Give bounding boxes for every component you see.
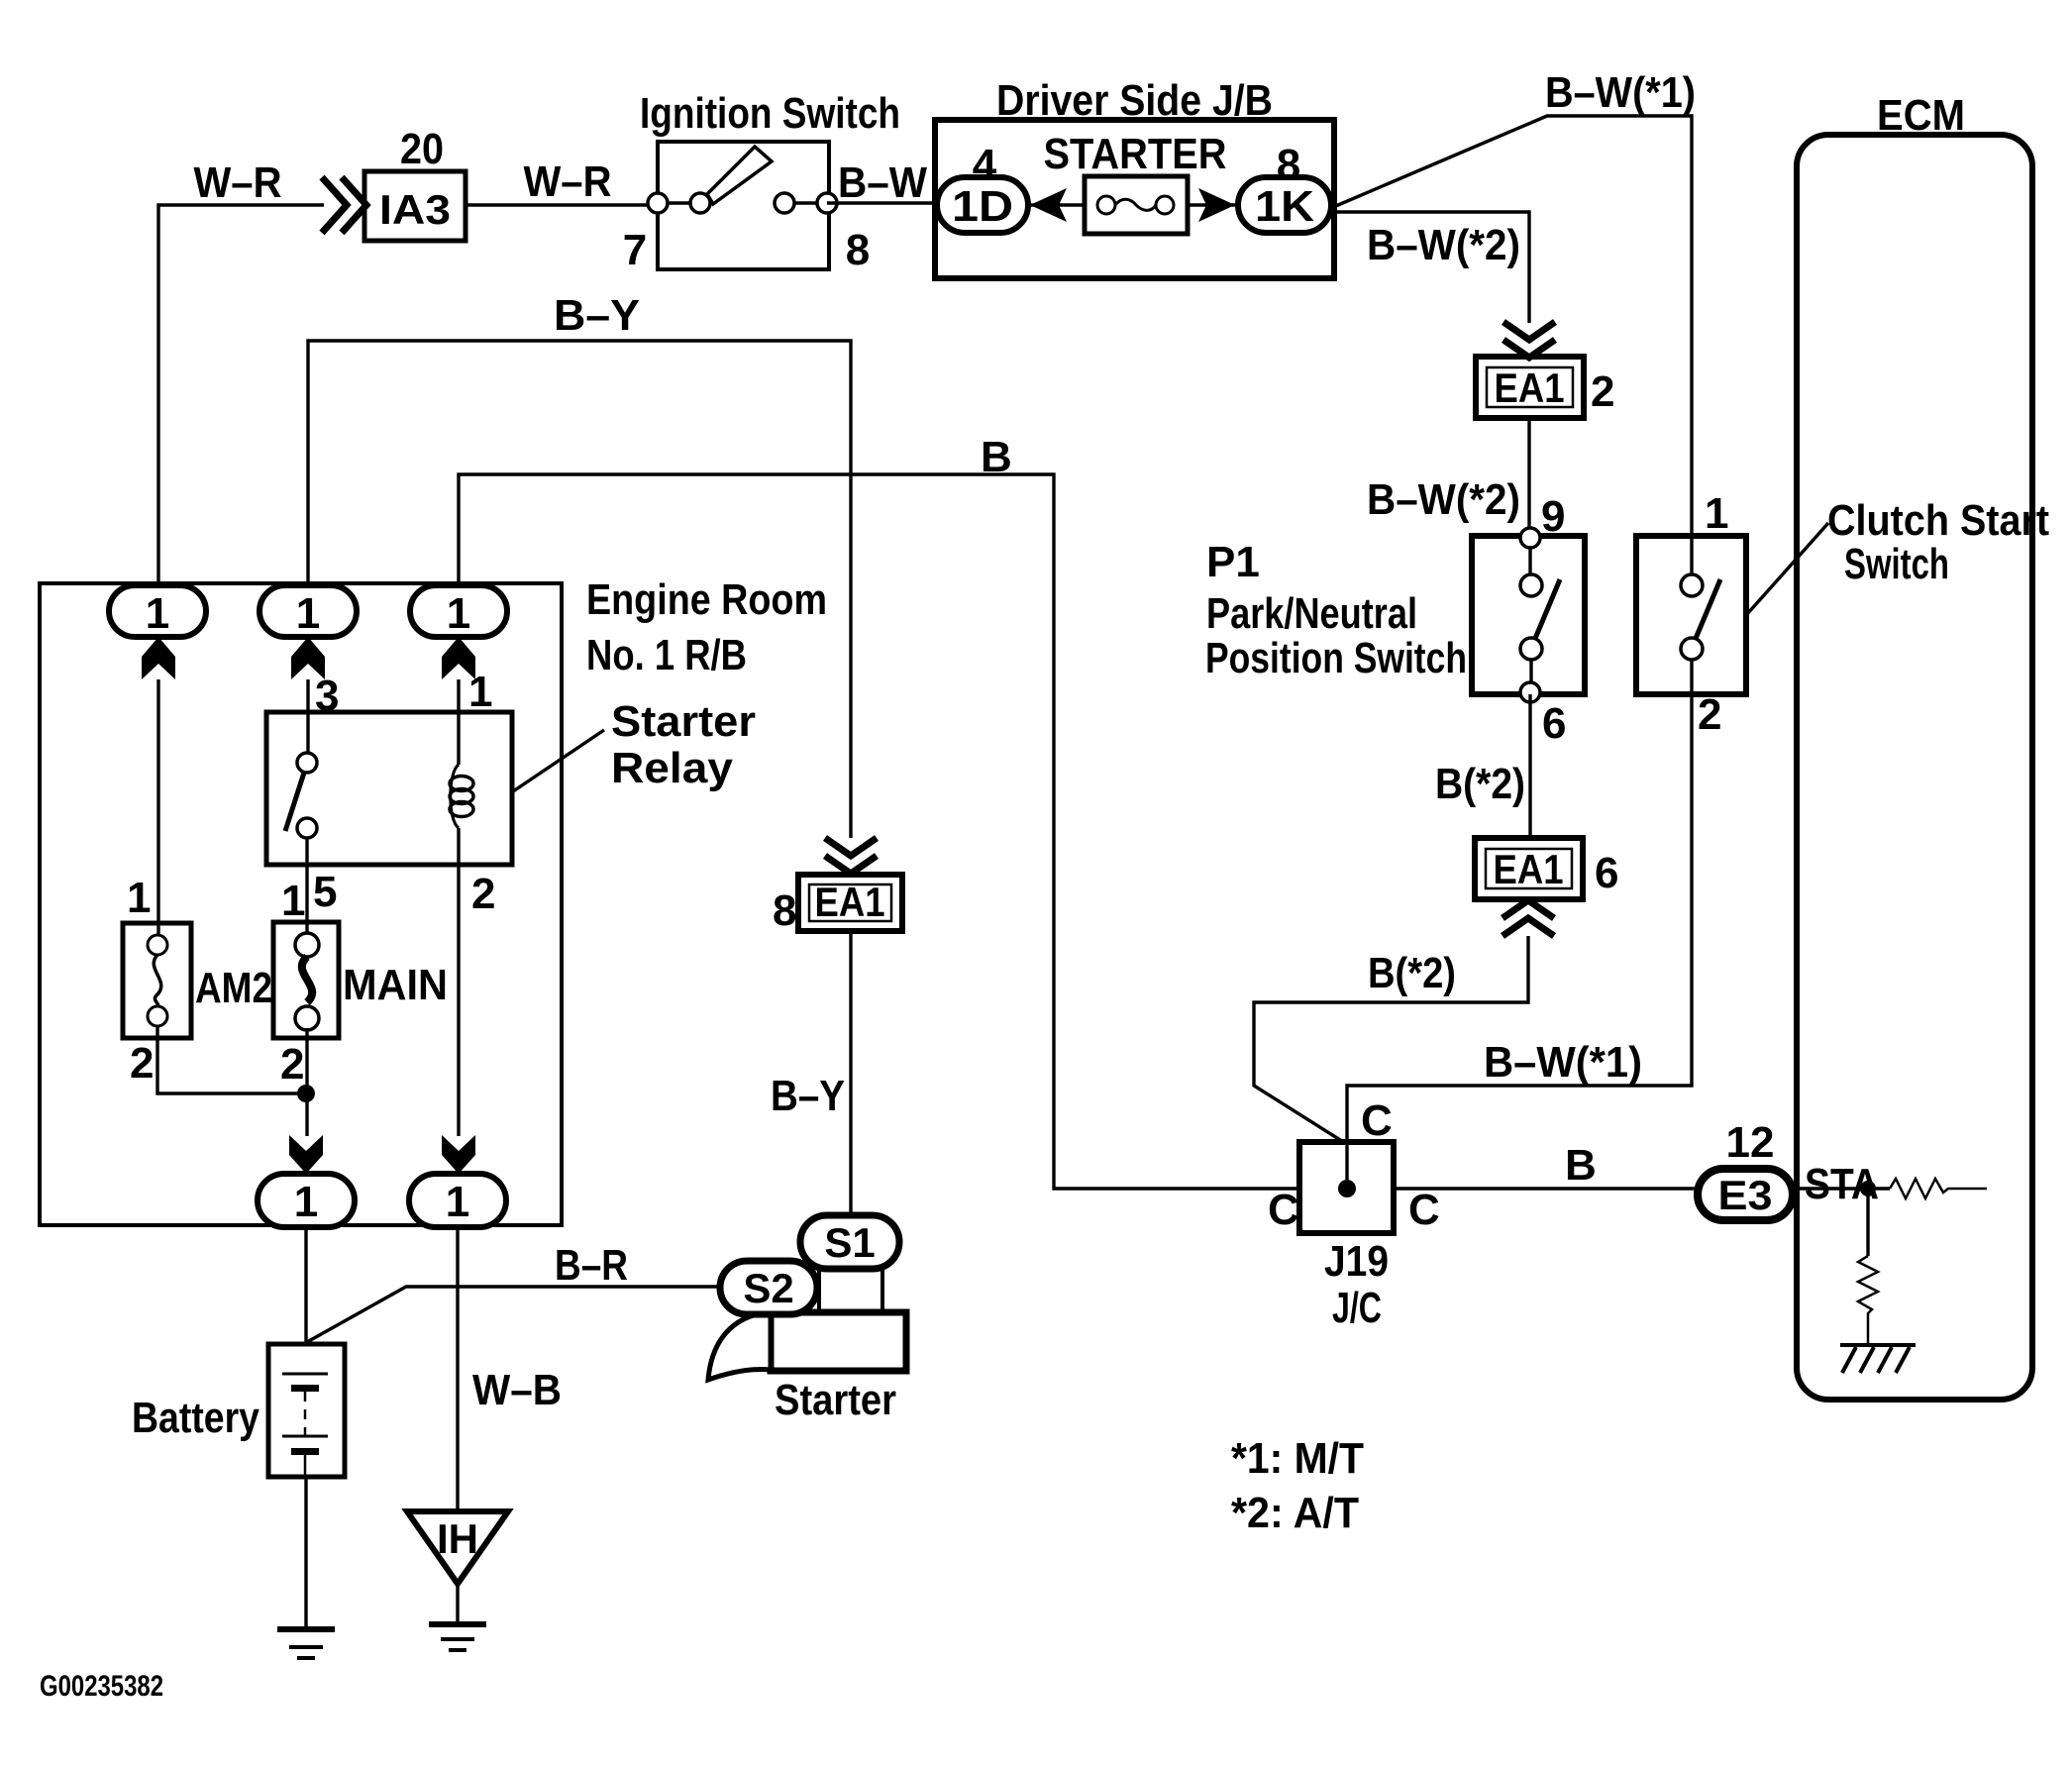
svg-text:B–W(*1): B–W(*1) <box>1484 1038 1642 1087</box>
fuse AM2 <box>123 923 191 1038</box>
svg-text:1: 1 <box>294 1178 318 1226</box>
svg-text:IH: IH <box>437 1515 478 1562</box>
svg-text:8: 8 <box>773 886 796 935</box>
svg-text:S1: S1 <box>824 1219 875 1266</box>
svg-text:IA3: IA3 <box>379 186 451 233</box>
wire relay coil bottom down <box>457 865 460 1136</box>
svg-text:E3: E3 <box>1718 1172 1773 1218</box>
junction dot STA <box>1860 1181 1876 1196</box>
black arrow left into 1D <box>1030 188 1067 222</box>
svg-text:Position Switch: Position Switch <box>1205 634 1467 682</box>
svg-text:5: 5 <box>313 868 337 916</box>
wire AM2 bottom to junction <box>157 1026 306 1093</box>
svg-text:1: 1 <box>446 1178 469 1226</box>
svg-text:J19: J19 <box>1324 1237 1389 1286</box>
svg-text:Relay: Relay <box>611 744 734 792</box>
svg-text:C: C <box>1268 1186 1299 1234</box>
wire from right connector down to relay pin 1 <box>457 679 460 712</box>
black arrow right toward 1K <box>1198 188 1235 222</box>
svg-text:1: 1 <box>468 668 492 716</box>
svg-text:2: 2 <box>130 1039 154 1088</box>
svg-text:1: 1 <box>146 589 169 638</box>
connector 1 top-middle of R/B <box>259 585 357 638</box>
svg-text:No. 1 R/B: No. 1 R/B <box>586 631 747 679</box>
connector 1D <box>937 177 1028 233</box>
resistor vertical <box>1858 1256 1878 1345</box>
svg-text:B–W(*2): B–W(*2) <box>1367 221 1520 269</box>
wire B-Y from R/B connector to EA1 pin 8 <box>308 341 851 838</box>
connector 1 top-left of R/B <box>109 585 206 638</box>
fuse MAIN <box>273 922 339 1038</box>
wire STA inside ECM <box>1793 1187 1890 1190</box>
chassis ground inside ECM <box>1840 1345 1916 1373</box>
svg-text:B: B <box>981 433 1012 481</box>
svg-text:1: 1 <box>296 589 320 638</box>
svg-text:2: 2 <box>280 1040 304 1089</box>
svg-text:EA1: EA1 <box>815 879 885 925</box>
ECM box <box>1797 135 2032 1400</box>
svg-text:8: 8 <box>846 226 870 274</box>
wire battery positive <box>304 1227 307 1344</box>
fuse STARTER <box>1028 176 1238 234</box>
svg-text:2: 2 <box>471 870 495 918</box>
svg-text:Clutch Start: Clutch Start <box>1827 496 2049 545</box>
wire down from STA dot <box>1866 1189 1869 1256</box>
svg-text:B–R: B–R <box>555 1241 628 1290</box>
junction dot below MAIN <box>297 1085 315 1102</box>
junction connector J19 J/C <box>1299 1142 1698 1233</box>
up arrow below connector 1 right <box>442 637 475 679</box>
svg-text:W–R: W–R <box>194 158 282 207</box>
battery <box>268 1344 345 1477</box>
connector S2 <box>720 1261 817 1314</box>
wire B(*2) from P1 to EA1 pin 6 <box>1528 694 1531 838</box>
svg-text:STARTER: STARTER <box>1044 130 1227 178</box>
svg-text:Starter: Starter <box>611 697 756 746</box>
svg-text:1: 1 <box>447 589 470 638</box>
svg-text:*2: A/T: *2: A/T <box>1231 1489 1359 1537</box>
callout line to clutch start switch label <box>1747 523 1828 614</box>
svg-text:B–W(*2): B–W(*2) <box>1367 475 1520 524</box>
Engine Room No.1 R/B box <box>40 583 562 1225</box>
svg-text:2: 2 <box>1698 690 1721 739</box>
down arrow above bottom-left connector <box>289 1135 323 1174</box>
wire B-W(*1) lower segment to J/C <box>1347 694 1692 1189</box>
starter relay <box>266 712 512 865</box>
wire IH to ground <box>456 1584 459 1624</box>
connector double chevron into EA1 pin 2 <box>1503 322 1555 358</box>
ground below battery <box>277 1629 335 1658</box>
svg-text:Switch: Switch <box>1844 540 1949 588</box>
svg-text:P1: P1 <box>1206 538 1260 586</box>
svg-text:20: 20 <box>400 125 444 173</box>
connector double chevron below EA1 pin 6 <box>1502 900 1554 936</box>
wire B-W(*2) from EA1 to P1 switch <box>1527 418 1530 538</box>
connector E3 <box>1698 1169 1793 1220</box>
starter body <box>708 1269 906 1380</box>
svg-text:EA1: EA1 <box>1495 364 1565 411</box>
svg-text:W–B: W–B <box>472 1366 562 1414</box>
svg-text:J/C: J/C <box>1332 1284 1382 1332</box>
wire MAIN bottom down through junction <box>305 1028 308 1136</box>
clutch start switch <box>1636 536 1746 694</box>
svg-text:6: 6 <box>1595 849 1618 897</box>
connector IA3 <box>364 171 466 241</box>
wire battery negative to ground <box>304 1477 307 1629</box>
wire relay pin 5 to MAIN <box>305 865 308 935</box>
wire W-B down to IH <box>456 1227 459 1511</box>
svg-text:Starter: Starter <box>775 1376 896 1424</box>
svg-text:1K: 1K <box>1255 182 1314 231</box>
svg-text:7: 7 <box>623 226 647 274</box>
wire from middle connector down to relay pin 3 <box>306 679 309 712</box>
wire B-R from battery to starter S2 <box>307 1287 721 1342</box>
svg-text:B–Y: B–Y <box>771 1072 845 1120</box>
svg-text:B(*2): B(*2) <box>1368 949 1456 997</box>
svg-text:B(*2): B(*2) <box>1435 760 1525 808</box>
ground below IH <box>429 1624 486 1650</box>
wire from left connector down to fuse AM2 <box>156 679 159 935</box>
connector 1 bottom-right of R/B <box>409 1174 506 1227</box>
svg-text:B–Y: B–Y <box>554 291 640 340</box>
svg-text:Battery: Battery <box>132 1394 259 1442</box>
svg-text:EA1: EA1 <box>1494 846 1564 892</box>
up arrow below connector 1 left <box>142 637 175 679</box>
wire B-W(*1) from 1K up right and down right side <box>1331 116 1692 536</box>
connector EA1 pin 8 <box>798 875 902 931</box>
svg-text:C: C <box>1408 1186 1440 1234</box>
svg-text:6: 6 <box>1542 699 1566 748</box>
svg-text:MAIN: MAIN <box>343 961 448 1009</box>
svg-text:Driver Side J/B: Driver Side J/B <box>996 76 1273 125</box>
wire B from R/B connector to J/C and E3 <box>459 474 1299 1189</box>
svg-text:S2: S2 <box>743 1265 793 1311</box>
svg-text:AM2: AM2 <box>195 964 272 1012</box>
svg-text:C: C <box>1361 1096 1393 1145</box>
connector S1 <box>800 1215 899 1269</box>
connector double chevron into EA1 pin 8 <box>825 838 877 874</box>
svg-text:ECM: ECM <box>1877 91 1965 140</box>
svg-text:Park/Neutral: Park/Neutral <box>1206 589 1417 638</box>
wire B-Y from EA1 pin 8 to starter S1 <box>849 931 852 1216</box>
svg-text:1: 1 <box>1705 489 1728 538</box>
svg-text:Engine Room: Engine Room <box>586 575 827 624</box>
connector 1 top-right of R/B <box>410 585 507 638</box>
wire B(*2) from EA1 pin 6 down to J/C <box>1254 936 1528 1143</box>
connector double chevron into IA3 <box>322 177 366 233</box>
connector EA1 pin 6 <box>1475 838 1583 899</box>
svg-text:1D: 1D <box>952 182 1013 231</box>
svg-text:2: 2 <box>1591 367 1614 416</box>
wire W-R horizontal with left branch down to R/B connector <box>158 205 658 586</box>
wire B-W ignition to J/B <box>827 201 937 204</box>
callout line to starter relay label <box>513 730 604 791</box>
up arrow below connector 1 middle <box>291 637 325 679</box>
svg-text:B: B <box>1565 1141 1597 1190</box>
svg-text:1: 1 <box>127 874 151 922</box>
ignition switch <box>648 142 837 269</box>
svg-text:12: 12 <box>1726 1118 1775 1167</box>
Driver Side J/B box <box>935 120 1334 278</box>
svg-text:Ignition Switch: Ignition Switch <box>640 89 900 138</box>
wire B-W(*2) from 1K to EA1 pin 2 <box>1331 212 1529 323</box>
ground connector IH <box>407 1511 508 1584</box>
svg-text:1: 1 <box>281 877 305 925</box>
connector 1K <box>1238 177 1331 233</box>
svg-text:B–W(*1): B–W(*1) <box>1545 68 1696 117</box>
connector EA1 pin 2 <box>1476 357 1584 418</box>
resistor horizontal <box>1890 1179 1987 1198</box>
svg-text:G00235382: G00235382 <box>40 1670 163 1703</box>
connector 1 bottom-left of R/B <box>258 1174 355 1227</box>
svg-text:B–W: B–W <box>838 158 927 207</box>
park/neutral position switch P1 <box>1472 528 1585 702</box>
svg-text:W–R: W–R <box>524 157 612 206</box>
svg-text:*1: M/T: *1: M/T <box>1231 1434 1364 1483</box>
down arrow above bottom-right connector <box>442 1135 475 1174</box>
